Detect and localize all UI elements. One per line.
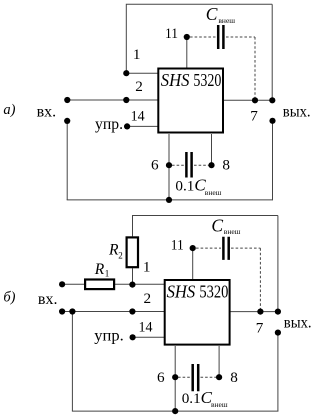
svg-text:11: 11 xyxy=(165,25,178,42)
svg-text:внеш: внеш xyxy=(211,400,228,409)
svg-text:внеш: внеш xyxy=(205,188,222,197)
svg-text:5320: 5320 xyxy=(199,281,228,301)
svg-text:6: 6 xyxy=(151,157,159,174)
svg-text:7: 7 xyxy=(256,319,264,336)
svg-text:1: 1 xyxy=(143,259,151,276)
svg-text:5320: 5320 xyxy=(193,70,221,90)
svg-text:8: 8 xyxy=(230,369,238,386)
svg-text:вх.: вх. xyxy=(37,103,57,120)
svg-text:вх.: вх. xyxy=(38,291,58,308)
svg-text:упр.: упр. xyxy=(95,116,123,133)
svg-text:2: 2 xyxy=(118,250,123,260)
svg-text:6: 6 xyxy=(157,369,165,386)
svg-text:SHS: SHS xyxy=(167,281,196,301)
svg-text:2: 2 xyxy=(144,290,152,307)
svg-text:вых.: вых. xyxy=(283,104,311,121)
svg-text:б): б) xyxy=(3,290,15,306)
svg-text:внеш: внеш xyxy=(224,227,241,236)
svg-text:внеш: внеш xyxy=(218,16,235,25)
svg-text:SHS: SHS xyxy=(161,70,190,90)
svg-text:0.1C: 0.1C xyxy=(175,176,206,195)
svg-text:2: 2 xyxy=(135,78,143,95)
svg-text:14: 14 xyxy=(139,319,153,336)
svg-text:0.1C: 0.1C xyxy=(182,388,213,407)
svg-text:вых.: вых. xyxy=(284,315,312,332)
svg-text:а): а) xyxy=(3,102,15,118)
svg-text:8: 8 xyxy=(222,157,230,174)
svg-text:1: 1 xyxy=(105,268,110,278)
svg-text:11: 11 xyxy=(171,237,184,254)
svg-text:C: C xyxy=(211,215,223,235)
svg-text:упр.: упр. xyxy=(94,327,124,344)
svg-text:R: R xyxy=(94,261,105,278)
svg-text:1: 1 xyxy=(133,46,141,63)
svg-text:C: C xyxy=(206,4,218,24)
svg-text:14: 14 xyxy=(131,107,145,124)
svg-text:7: 7 xyxy=(250,107,258,124)
